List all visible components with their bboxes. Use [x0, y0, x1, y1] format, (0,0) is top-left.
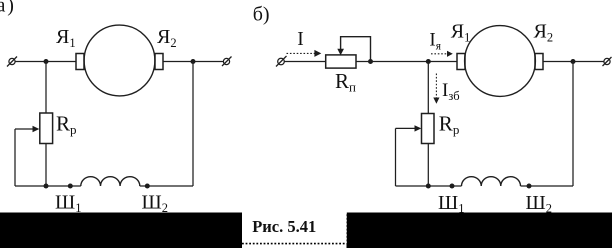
current arrow I_ya (dashed)	[431, 51, 453, 57]
svg-text:Ш1: Ш1	[438, 192, 464, 216]
node Sh1 (b)	[450, 184, 455, 189]
wire wiper return down (a)	[14, 129, 16, 186]
current arrow I_zb (dashed, down)	[433, 74, 439, 104]
motor armature M (a)	[84, 25, 155, 96]
svg-text:Rр: Rр	[439, 112, 460, 138]
svg-text:б): б)	[253, 4, 270, 26]
svg-text:Я2: Я2	[157, 26, 177, 50]
field winding coil (a)	[81, 177, 140, 186]
brush contact left (b)	[457, 54, 465, 70]
rheostat Rp body (b)	[422, 114, 435, 144]
svg-text:Я2: Я2	[534, 20, 554, 44]
node Sh2 (a)	[145, 184, 150, 189]
terminal T2 (right output, circuit a)	[222, 57, 232, 67]
wire right brush to terminal T4 (b)	[543, 61, 604, 63]
node Sh1 (a)	[68, 184, 73, 189]
wire right side down (b)	[572, 62, 574, 187]
rheostat wiper arrow (b)	[396, 125, 422, 131]
svg-text:а: а	[0, 0, 6, 16]
brush contact right (b)	[535, 54, 543, 70]
black bar left	[0, 213, 242, 248]
svg-text:Iзб: Iзб	[442, 80, 460, 103]
wire right side down (a)	[192, 62, 194, 187]
svg-text:Ш1: Ш1	[55, 192, 81, 216]
Rn wiper bypass wire (b)	[341, 37, 371, 62]
node Rp-bottom (b)	[426, 184, 431, 189]
current arrow I (dashed)	[287, 50, 322, 57]
bottom wire (a)	[15, 185, 81, 187]
wire shunt branch down (b)	[427, 62, 429, 114]
bottom wire (b)	[396, 185, 462, 187]
wire from T1 to armature brush (a)	[15, 61, 76, 63]
wire from T3 to Rn (b)	[285, 61, 326, 63]
svg-text:Iя: Iя	[429, 29, 441, 52]
svg-text:Ш2: Ш2	[142, 192, 168, 216]
node Rp-bottom (a)	[44, 184, 49, 189]
wire node A1 down to rheostat (a)	[45, 62, 47, 114]
svg-text:I: I	[297, 29, 304, 50]
rheostat Rp body (a)	[40, 113, 53, 144]
wire Rn to armature brush (b)	[356, 61, 457, 63]
dotted caption-box right edge	[345, 213, 347, 245]
Rn wiper arrowhead (b)	[337, 49, 344, 55]
terminal T3 (left input, circuit b)	[276, 56, 287, 67]
svg-text:Rп: Rп	[335, 69, 356, 95]
node right down-wire (b)	[571, 59, 576, 64]
wire from right brush to terminal T2 (a)	[163, 61, 224, 63]
node Sh2 (b)	[527, 184, 532, 189]
node at shunt branch (b)	[426, 59, 431, 64]
svg-text:): )	[7, 0, 14, 16]
svg-text:Я1: Я1	[451, 20, 471, 44]
wire wiper return down (b)	[395, 128, 397, 186]
node at right down-wire (a)	[191, 59, 196, 64]
svg-text:Я1: Я1	[56, 26, 76, 50]
black bar right	[347, 213, 612, 248]
node at Rp branch (a)	[44, 59, 49, 64]
svg-text:Rр: Rр	[56, 111, 77, 137]
brush contact right (a)	[155, 54, 163, 70]
brush contact left (a)	[76, 54, 84, 70]
terminal T1 (left input, circuit a)	[7, 57, 17, 67]
field winding coil (b)	[462, 177, 521, 186]
svg-text:Рис. 5.41: Рис. 5.41	[252, 217, 316, 236]
motor armature M (b)	[465, 26, 536, 97]
terminal T4 (right output, circuit b)	[603, 57, 612, 66]
svg-text:Ш2: Ш2	[526, 192, 552, 216]
wire Rp bottom lead (a)	[45, 144, 47, 187]
starting resistor Rn body (b)	[326, 55, 356, 68]
dotted caption-box bottom edge	[242, 243, 347, 245]
wire Rp bottom lead (b)	[427, 144, 429, 187]
node after Rn (b)	[368, 59, 373, 64]
rheostat wiper arrow (a)	[15, 126, 39, 132]
